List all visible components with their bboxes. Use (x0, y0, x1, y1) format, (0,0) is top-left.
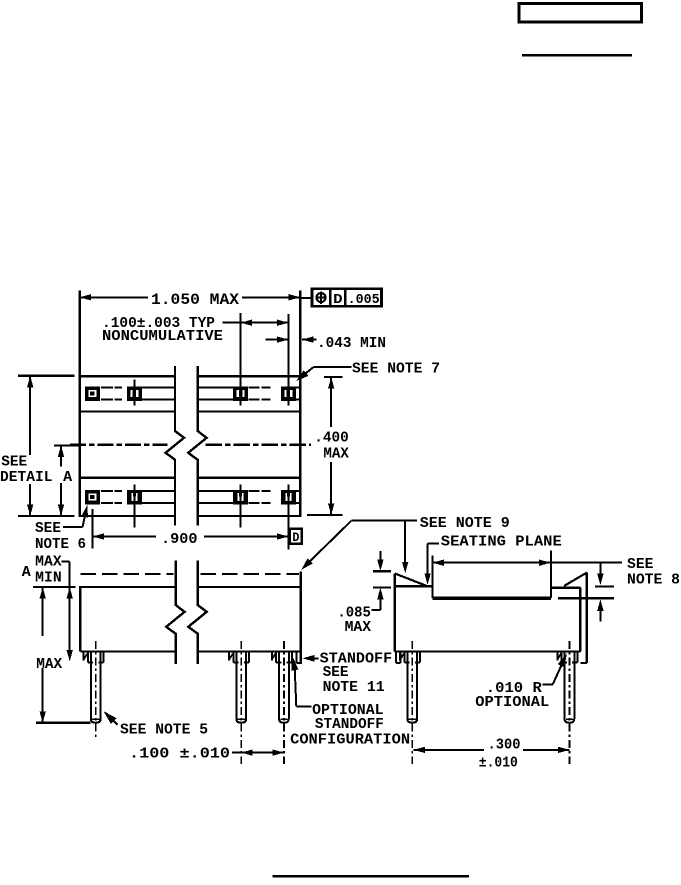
front view right wall foot (296, 662, 301, 664)
svg-text:D: D (292, 530, 299, 545)
svg-text:SEE: SEE (323, 665, 349, 681)
svg-text:.900: .900 (161, 532, 198, 548)
dimension .300 line (414, 749, 485, 751)
feature control frame ⌖ D .005 (300, 297, 312, 299)
front view pin 2 centerline / .100 extension (240, 641, 242, 764)
side view recess right rise / extension (550, 550, 552, 598)
wing dim down arrow line (599, 563, 601, 575)
svg-text:NOTE 11: NOTE 11 (323, 680, 385, 696)
svg-text:SEE: SEE (1, 455, 27, 471)
break line right (top view) (188, 366, 206, 525)
leader SEATING PLANE arrow (424, 573, 430, 585)
side view left chamfer (395, 573, 428, 586)
break line right (front view) (188, 560, 206, 664)
front view pin 2 with standoff (229, 652, 233, 661)
side view outer wall foot (580, 662, 587, 664)
title underline (522, 54, 632, 56)
contact pin 1 (bottom row) (85, 490, 100, 505)
overall height dim bottom tick (18, 515, 75, 517)
top view pin band 1 bottom line (79, 410, 175, 412)
top view centerline (dash-dot) (70, 444, 168, 446)
pin 2 centerline (bottom row) (133, 484, 135, 527)
svg-text:SEE: SEE (627, 557, 654, 573)
overall height dim down arrow (27, 504, 33, 516)
dim body max/min line (69, 561, 71, 650)
svg-text:MAX: MAX (345, 620, 372, 636)
dim .085 elbow (371, 609, 380, 611)
dimension .043 arrow at body edge (302, 336, 314, 342)
side view left edge (394, 573, 396, 651)
front view pin 3 with standoff (272, 652, 276, 661)
front view right edge (299, 572, 301, 664)
contact pin 3 (top row) (233, 386, 248, 401)
dimension 1.050 MAX line (80, 296, 148, 298)
svg-text:NOTE 8: NOTE 8 (627, 572, 680, 588)
top view body top edge (broken at break) (79, 375, 175, 377)
title block box (blank) (519, 4, 642, 23)
top view contact rails (both rows) (101, 386, 113, 388)
leader .010 R arrow (558, 654, 567, 668)
overall height dim top tick (18, 375, 75, 377)
leader optional standoff arrow (291, 655, 298, 671)
datum box D (290, 529, 302, 544)
svg-text:OPTIONAL: OPTIONAL (475, 695, 549, 711)
front view bottom edge (80, 650, 175, 652)
leader SEE NOTE 5 arrow (104, 711, 117, 724)
side view inner right edge (579, 588, 581, 652)
svg-text:MAX: MAX (323, 446, 349, 462)
contact pin 1 (top row) (85, 386, 100, 401)
dim body max/min down arrow (67, 650, 73, 662)
svg-text:.100 ±.010: .100 ±.010 (129, 746, 230, 762)
dimension .400 line (330, 378, 332, 428)
svg-text:1.050 MAX: 1.050 MAX (151, 291, 240, 309)
top view body left edge + 1.050 left extension line (78, 291, 80, 517)
dimension .900 line (93, 536, 156, 538)
pin 2 centerline (top row) (133, 380, 135, 406)
pin 4 centerline / .043 extension line (287, 314, 289, 405)
side view left wing top (395, 585, 433, 587)
dim .085 up arrow (377, 588, 383, 600)
svg-text:DETAIL: DETAIL (0, 470, 53, 486)
top view pin band 2 top line (79, 477, 175, 479)
leader optional standoff (295, 663, 297, 707)
dimension .043 arrow at pin centerline (277, 336, 289, 342)
contact pin 4 (top row) (281, 386, 296, 401)
svg-text:MIN: MIN (35, 570, 62, 586)
svg-text:SEATING PLANE: SEATING PLANE (441, 535, 562, 551)
top view body right edge + 1.050/FCF right extension line (299, 291, 301, 517)
dim overall max up arrow (40, 587, 46, 599)
dim .085 upper line (379, 551, 381, 561)
front view pin 1 centerline (95, 641, 97, 738)
pin 1 extension line for .900 (91, 509, 93, 549)
svg-text:±.010: ±.010 (479, 755, 518, 771)
front view pin 3 centerline / .100 extension (283, 641, 285, 764)
svg-text:SEE NOTE 9: SEE NOTE 9 (420, 516, 510, 532)
break line left (front view) (166, 560, 184, 664)
front view pin 1 with standoff (84, 652, 88, 661)
dimension .100±.010 left arrow (241, 749, 253, 755)
wing dim down arrow (597, 574, 603, 586)
svg-text:A: A (63, 470, 72, 486)
dimension .100 right arrow (277, 320, 289, 326)
seating plane dim line + note 8 leader (432, 562, 622, 564)
dimension .043 line left part (266, 339, 289, 341)
dimension 1.050 MAX right arrow (289, 294, 301, 300)
svg-text:D: D (333, 293, 343, 308)
figure caption rule (273, 875, 470, 878)
dimension A down arrow (58, 504, 64, 516)
dim body max/min elbow (62, 560, 70, 562)
seating plane dim left arrow (432, 560, 444, 566)
svg-text:.400: .400 (314, 431, 349, 447)
side view right chamfer (564, 573, 587, 586)
leader SEE NOTE 9 vertical branch (404, 520, 406, 563)
dimension .300 right arrow (558, 747, 570, 753)
seating plane dim right arrow (539, 560, 551, 566)
dimension .100 line (223, 322, 289, 324)
wing dim lower line (599, 610, 601, 622)
svg-text:.300: .300 (488, 738, 521, 754)
dimension .400 up arrow (328, 377, 334, 389)
side view bottom edge (395, 650, 581, 652)
leader STANDOFF dash (311, 657, 319, 659)
dimension A top tick (54, 444, 80, 446)
wing dim up arrow (597, 599, 603, 611)
leader SEE NOTE 9 diagonal (303, 520, 352, 568)
dimension .900 left arrow (93, 533, 105, 539)
dimension 1.050 MAX left arrow (80, 294, 92, 300)
dim .085 upper tick (373, 570, 391, 572)
front view right wall inner line (295, 652, 297, 663)
dimension .100±.010 line (232, 752, 284, 754)
svg-text:.043 MIN: .043 MIN (317, 336, 386, 352)
dim .085 lower tick (373, 586, 391, 588)
svg-text:SEE: SEE (35, 521, 61, 537)
leader STANDOFF arrow (303, 655, 315, 662)
svg-text:A: A (22, 565, 31, 581)
dimension .300 left arrow (414, 747, 426, 753)
leader SEATING PLANE elbow (428, 543, 439, 545)
leader SEE NOTE 9 arrow at side view corner (402, 562, 408, 574)
contact pin 4 (bottom row) (281, 490, 296, 505)
overall height dim line (29, 376, 31, 455)
dimension .100 left arrow (241, 320, 253, 326)
dimension .100±.010 right arrow (272, 749, 284, 755)
side view recess left drop / seating extension (431, 556, 433, 598)
dimension .043 line right part (302, 339, 317, 341)
side view pin 2 centerline / .300 extension (568, 641, 570, 764)
svg-text:NONCUMULATIVE: NONCUMULATIVE (102, 329, 223, 345)
dim .085 down arrow (377, 560, 383, 572)
svg-text:SEE NOTE 5: SEE NOTE 5 (120, 722, 208, 738)
svg-text:SEE NOTE 7: SEE NOTE 7 (352, 362, 440, 378)
leader SEE NOTE 6 (63, 526, 83, 528)
contact pin 2 (bottom row) (127, 490, 142, 505)
wing top tick (right) (595, 585, 614, 587)
dimension .900 right arrow (277, 533, 289, 539)
side view pin 2 with standoff (557, 652, 561, 661)
svg-text:STANDOFF: STANDOFF (315, 717, 384, 733)
dim overall max line (42, 588, 44, 637)
front view dashed max-height line (80, 573, 173, 575)
dimension .400 bottom tick (307, 514, 343, 516)
leader .010 R (542, 683, 553, 685)
recess top tick (right) (558, 597, 614, 599)
dimension A line (60, 446, 62, 467)
contact pin 2 (top row) (127, 386, 142, 401)
dim overall max down arrow (40, 711, 46, 723)
dim A max/min top tick (33, 586, 76, 588)
pin 4 centerline / datum D extension line (287, 484, 289, 549)
dim A max/min bottom tick (36, 722, 91, 724)
side view left corner standoff (396, 652, 401, 664)
side view right wing top (551, 586, 581, 588)
dim body max/min up arrow (67, 587, 73, 599)
svg-text:NOTE 6: NOTE 6 (35, 537, 86, 553)
leader SEE NOTE 5 (106, 714, 118, 725)
svg-text:MAX: MAX (35, 555, 62, 571)
front view left edge (79, 586, 81, 652)
side view outer right edge (586, 573, 588, 664)
leader SEE NOTE 6 arrow (81, 505, 88, 518)
top view body bottom edge (broken at break) (79, 515, 175, 517)
leader SEE NOTE 7 (314, 366, 352, 368)
pin 3 centerline / .100 extension line (240, 313, 242, 405)
side view pin 1 centerline / .300 extension (411, 641, 413, 764)
leader SEE NOTE 7 arrow (296, 370, 308, 381)
svg-text:MAX: MAX (36, 657, 62, 673)
dim .085 lower line (379, 599, 381, 610)
overall height dim up arrow (27, 376, 33, 388)
svg-text:.005: .005 (348, 293, 380, 308)
side view recess top (seating plane) (432, 597, 551, 600)
svg-text:CONFIGURATION: CONFIGURATION (290, 732, 410, 748)
break line left (top view) (166, 366, 184, 525)
pin 3 centerline (bottom row) (240, 484, 242, 527)
dimension .400 top tick (324, 376, 343, 378)
dimension A up arrow (58, 445, 64, 457)
front view top edge (80, 586, 175, 588)
leader SEE NOTE 9 arrow at front view corner (301, 559, 312, 570)
side view pin 1 with standoff (400, 652, 404, 661)
leader SEE NOTE 9 horizontal (352, 519, 417, 521)
dimension .400 down arrow (328, 503, 334, 515)
contact pin 3 (bottom row) (233, 490, 248, 505)
